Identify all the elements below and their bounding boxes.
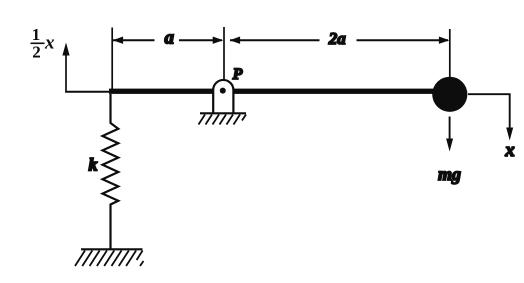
displacement arrow x (elbow right then down) [468,94,513,140]
spring ground anchor [75,249,144,266]
weight arrow mg (down) [446,117,453,152]
svg-text:mg: mg [438,164,461,184]
svg-text:1: 1 [32,25,41,44]
dimension line a [113,37,224,44]
svg-text:x: x [44,33,55,54]
svg-text:x: x [504,140,515,161]
dimension line 2a [230,37,450,44]
svg-text:2a: 2a [328,29,347,48]
label 1/2 x [32,25,55,62]
svg-text:a: a [165,28,175,49]
beam (rigid lever bar) [109,89,450,94]
mid extension line (over pivot) [223,27,225,81]
pivot ground anchor [199,113,247,124]
svg-text:P: P [232,66,243,83]
svg-text:k: k [89,155,98,175]
pivot clevis P [213,80,233,114]
half-x displacement arrow (up) [62,43,109,93]
pivot pin dot [220,88,226,94]
left extension line (over beam left end) [111,28,113,90]
spring k (zigzag) [103,94,119,250]
svg-text:2: 2 [32,43,41,62]
right extension line (over mass) [449,29,451,79]
mass ball [432,77,467,112]
fraction bar [31,42,45,44]
